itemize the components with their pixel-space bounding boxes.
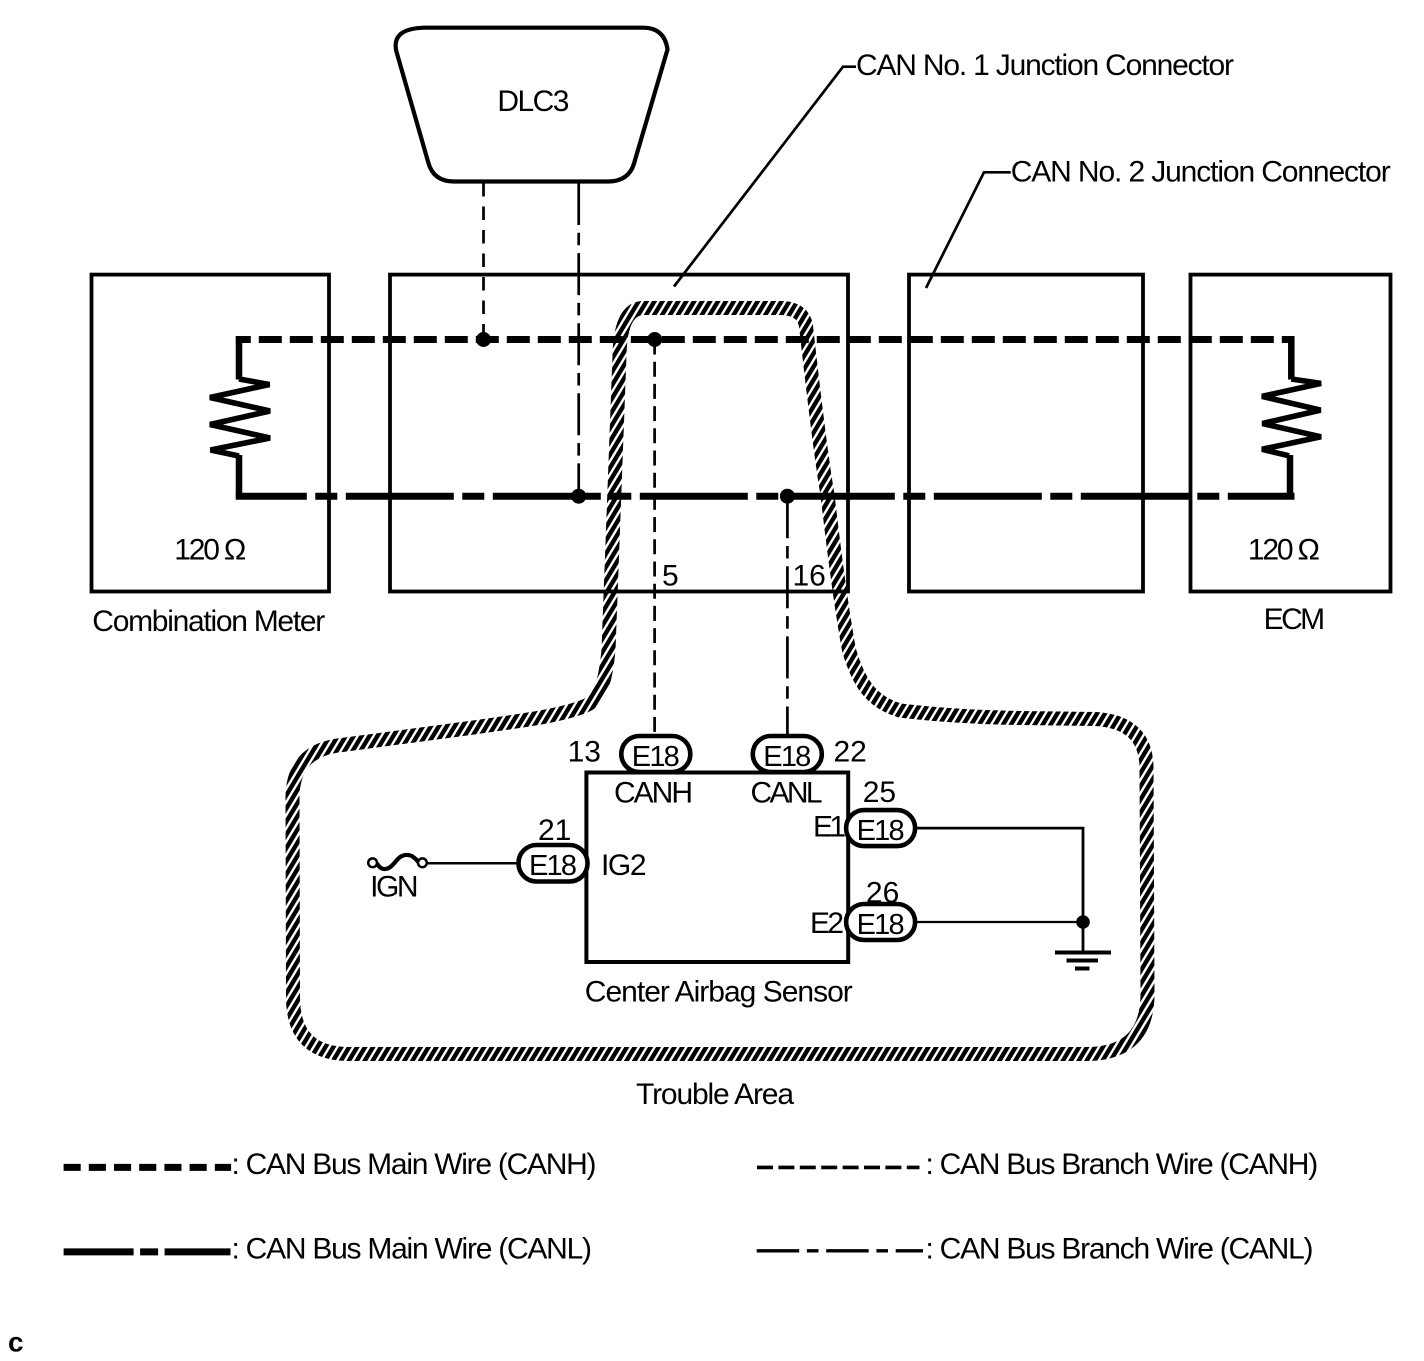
- svg-text:21: 21: [538, 814, 571, 847]
- ground: [1055, 922, 1111, 969]
- svg-text:: CAN Bus Branch Wire (CANH): : CAN Bus Branch Wire (CANH): [926, 1148, 1319, 1181]
- leader line CAN No.1: [674, 67, 856, 287]
- DLC3 connector: [396, 28, 668, 182]
- svg-text:Trouble Area: Trouble Area: [636, 1078, 794, 1111]
- combination meter box: [92, 275, 330, 592]
- svg-text:Center Airbag Sensor: Center Airbag Sensor: [585, 976, 853, 1009]
- junction dot CANL-16: [780, 489, 795, 504]
- junction dot CANL-DLC3: [571, 489, 586, 504]
- svg-text:25: 25: [863, 776, 896, 809]
- legend branch CANH sample: [757, 1166, 920, 1170]
- wire E1 to ground: [914, 828, 1083, 922]
- svg-text:CANH: CANH: [614, 777, 693, 810]
- svg-text:120 Ω: 120 Ω: [1248, 533, 1320, 566]
- center airbag sensor box: [586, 773, 848, 963]
- svg-text:E18: E18: [763, 741, 811, 773]
- svg-text:IGN: IGN: [370, 871, 419, 904]
- IGN pigtail: [368, 855, 427, 869]
- svg-text:ECM: ECM: [1264, 603, 1326, 636]
- svg-text:: CAN Bus Main Wire (CANH): : CAN Bus Main Wire (CANH): [232, 1148, 597, 1181]
- svg-text:: CAN Bus Main Wire (CANL): : CAN Bus Main Wire (CANL): [232, 1232, 593, 1265]
- wire E2 to ground: [914, 921, 1083, 923]
- svg-text:120 Ω: 120 Ω: [174, 533, 246, 566]
- svg-text:5: 5: [662, 560, 679, 593]
- svg-text:CANL: CANL: [751, 777, 823, 810]
- svg-text:E18: E18: [632, 741, 680, 773]
- svg-text:E18: E18: [857, 909, 905, 941]
- svg-text:: CAN Bus Branch Wire (CANL): : CAN Bus Branch Wire (CANL): [926, 1232, 1314, 1265]
- resistor R left (120 ohm): [210, 336, 270, 500]
- junction dot CANH-DLC3: [476, 332, 491, 347]
- svg-text:c: c: [8, 1326, 24, 1357]
- svg-text:IG2: IG2: [601, 849, 647, 882]
- ECM box: [1191, 275, 1391, 592]
- svg-text:DLC3: DLC3: [497, 85, 569, 118]
- trouble area hatched outline: [292, 308, 1147, 1054]
- svg-text:Combination Meter: Combination Meter: [92, 605, 325, 638]
- legend branch CANL sample: [757, 1249, 923, 1252]
- legend main CANL sample: [64, 1248, 231, 1255]
- connector E18 pin22 (CANL): [753, 736, 822, 773]
- wire IGN to IG2: [427, 862, 520, 865]
- svg-text:E18: E18: [857, 815, 905, 847]
- resistor R right (120 ohm): [1262, 336, 1321, 500]
- junction dot CANH-5: [647, 332, 662, 347]
- DLC3 CANH branch wire: [482, 183, 485, 340]
- CANH bus main wire: [236, 336, 1295, 343]
- connector E18 pin26 (E2): [846, 904, 915, 941]
- branch wire pin 16: [786, 496, 789, 737]
- junction dot ground: [1076, 915, 1090, 929]
- connector E18 pin13 (CANH): [621, 736, 690, 773]
- DLC3 CANL branch wire: [577, 183, 580, 496]
- svg-text:E18: E18: [529, 850, 577, 882]
- svg-text:13: 13: [568, 736, 601, 769]
- connector E18 pin21 (IG2): [519, 845, 588, 882]
- svg-text:16: 16: [793, 560, 826, 593]
- svg-text:E1: E1: [813, 811, 846, 844]
- legend main CANH sample: [64, 1164, 232, 1171]
- branch wire pin 5: [653, 340, 656, 738]
- leader line CAN No.2: [926, 172, 1011, 288]
- junction connector 1 box: [390, 275, 848, 592]
- CANL bus main wire: [236, 493, 1295, 500]
- svg-text:CAN No. 2 Junction Connector: CAN No. 2 Junction Connector: [1011, 155, 1391, 188]
- svg-text:26: 26: [866, 877, 899, 910]
- svg-text:22: 22: [834, 736, 867, 769]
- junction connector 2 box: [909, 275, 1143, 592]
- connector E18 pin25 (E1): [846, 810, 915, 847]
- svg-text:CAN No. 1 Junction Connector: CAN No. 1 Junction Connector: [856, 49, 1234, 82]
- svg-text:E2: E2: [810, 907, 844, 940]
